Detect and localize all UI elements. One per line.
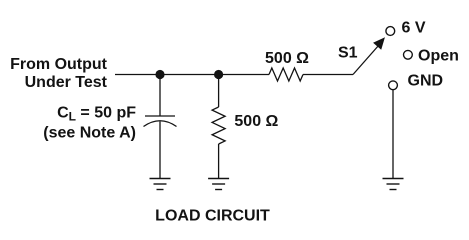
wire: from resistor to switch pole: [303, 74, 353, 76]
terminal circle: GND: [389, 81, 398, 90]
svg-text:CL = 50 pF: CL = 50 pF: [57, 105, 136, 124]
wire: capacitor bottom lead: [159, 122, 161, 179]
resistor R (horizontal 500 ohm): [269, 68, 303, 81]
ground (under capacitor): [150, 179, 171, 190]
svg-text:500 Ω: 500 Ω: [234, 113, 278, 130]
capacitor CL curved bottom plate: [144, 121, 177, 127]
capacitor CL top plate: [145, 115, 175, 117]
ground (under vertical resistor): [208, 179, 229, 190]
svg-text:6 V: 6 V: [402, 20, 426, 37]
svg-text:Open: Open: [418, 47, 459, 64]
ground (under GND terminal): [383, 179, 404, 190]
svg-text:LOAD CIRCUIT: LOAD CIRCUIT: [155, 208, 270, 225]
wire: vertical resistor top lead: [218, 75, 220, 108]
wire: GND terminal lead down to ground: [392, 90, 394, 179]
node: junction dot 2 (resistor tap): [214, 70, 223, 79]
node: junction dot 1 (capacitor tap): [155, 70, 164, 79]
svg-text:S1: S1: [338, 45, 358, 62]
svg-text:GND: GND: [408, 72, 444, 89]
svg-text:From Output: From Output: [10, 56, 108, 73]
terminal circle: Open: [404, 50, 413, 59]
svg-text:(see Note A): (see Note A): [43, 125, 136, 142]
terminal circle: 6 V: [386, 27, 395, 36]
svg-text:Under Test: Under Test: [25, 74, 108, 91]
svg-text:500 Ω: 500 Ω: [265, 50, 309, 67]
switch S1 arrowhead: [374, 38, 385, 49]
wire: main horizontal from input to horizontal resistor: [115, 74, 269, 76]
wire: vertical resistor bottom lead: [218, 144, 220, 179]
resistor R2 (vertical 500 ohm): [212, 107, 225, 144]
switch S1 arm: [353, 45, 379, 75]
wire: capacitor top lead: [159, 75, 161, 117]
